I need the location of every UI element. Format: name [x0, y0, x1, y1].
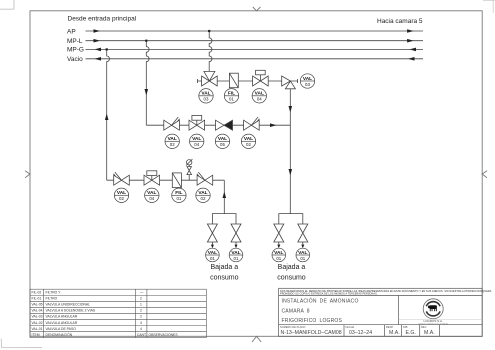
svg-text:Bajada a: Bajada a	[278, 264, 306, 271]
bubble VAL 02 row 2 b	[241, 134, 255, 148]
bubble VAL 03 angle row 1	[300, 74, 314, 88]
flow arrow down on MP-L drop	[145, 89, 149, 96]
svg-text:Hacia camara 5: Hacia camara 5	[377, 18, 423, 25]
valve VAL-01 bajada 2	[231, 224, 241, 242]
flow arrow bajada outlet 4	[301, 245, 304, 249]
flow arrow Vacio right	[408, 57, 415, 61]
svg-text:01: 01	[276, 256, 281, 261]
svg-text:04: 04	[194, 142, 199, 147]
valve VAL-04 solenoid row 3	[144, 175, 160, 185]
wire AP drop to row 1 with crossover hops	[209, 31, 212, 71]
svg-text:2: 2	[140, 309, 142, 313]
flow arrow down on right riser lower	[289, 169, 293, 176]
wire Vacio header line	[86, 58, 424, 60]
svg-text:AP: AP	[67, 28, 76, 35]
svg-text:01: 01	[210, 256, 215, 261]
svg-text:03–12–24: 03–12–24	[349, 330, 372, 336]
svg-text:LOGROS S.A.: LOGROS S.A.	[424, 319, 444, 323]
legend table	[30, 289, 206, 337]
svg-text:01: 01	[229, 97, 234, 102]
svg-text:ITEM: ITEM	[32, 333, 40, 337]
valve VAL-03 three-way row 1	[202, 71, 218, 86]
node label bajada left	[210, 264, 306, 281]
bubble VAL 02 row 3 b	[196, 188, 210, 202]
wire right bajada valve outlet stems	[279, 242, 303, 245]
svg-text:VAL-01: VAL-01	[32, 327, 43, 331]
svg-text:VALVULA ANGULAR: VALVULA ANGULAR	[46, 315, 78, 319]
wire MP-L drop to row 2 with hops	[146, 41, 149, 126]
wire MP-G header line	[86, 48, 424, 50]
junction node AP drop	[208, 30, 210, 32]
flow arrow up on left bajada feed	[223, 192, 227, 199]
valve VAL-02 row 3 second	[197, 172, 205, 180]
scan artifact bottom-left corner	[1, 339, 42, 348]
svg-text:NUMERO DE PLANO: NUMERO DE PLANO	[280, 325, 305, 329]
flow arrow MP-G left	[95, 48, 102, 52]
valve VAL-02 row 2 second	[251, 117, 259, 125]
svg-text:VALVULA DE PASO: VALVULA DE PASO	[46, 327, 77, 331]
svg-text:01: 01	[234, 256, 239, 261]
svg-text:FECHA: FECHA	[346, 325, 355, 329]
svg-text:Bajada a: Bajada a	[210, 264, 238, 271]
junction node MP-G drop	[106, 48, 108, 50]
wire left bajada valve outlet stems	[212, 242, 236, 245]
svg-text:MP-G: MP-G	[67, 47, 84, 54]
title block	[279, 288, 483, 336]
header labels	[67, 16, 423, 64]
bubble VAL 04 row 1	[252, 89, 266, 103]
svg-text:03: 03	[204, 97, 209, 102]
svg-text:VAL-02: VAL-02	[32, 321, 43, 325]
wire MP-G drop to row 3 with hop	[107, 49, 110, 180]
svg-text:CANT.: CANT.	[137, 333, 147, 337]
svg-text:05: 05	[220, 142, 225, 147]
svg-text:02: 02	[119, 196, 124, 201]
svg-text:01: 01	[176, 196, 181, 201]
border center mark bottom	[252, 336, 261, 342]
title block bottom row labels	[280, 325, 427, 329]
wire row 3 pipe	[107, 179, 225, 181]
valve VAL-01 bajada 3	[274, 224, 284, 242]
svg-text:VALVULA A SOLENOIDE 2 VIAS: VALVULA A SOLENOIDE 2 VIAS	[46, 309, 96, 313]
bubble FIL 01 row 1	[224, 89, 238, 103]
wire right bajada manifold	[279, 214, 303, 224]
valve VAL-05 check row 2	[216, 120, 225, 130]
svg-text:RESP.: RESP.	[386, 325, 394, 329]
svg-text:DENOMINACIÓN: DENOMINACIÓN	[46, 332, 73, 337]
bubble VAL 02 row 2 a	[165, 134, 179, 148]
svg-text:VAL-03: VAL-03	[32, 315, 43, 319]
svg-text:FILTRO: FILTRO	[46, 297, 58, 301]
bubble VAL 01 bajada 4	[296, 248, 310, 262]
scan artifact top-left corner	[0, 0, 14, 9]
svg-text:FIL-02: FIL-02	[32, 291, 42, 295]
valve VAL-03 angle row 1	[282, 76, 296, 89]
bubble VAL 01 bajada 3	[272, 248, 286, 262]
valve VAL-02 row 2 first	[172, 117, 180, 125]
valve VAL-04 solenoid row 1	[253, 76, 269, 86]
svg-text:03: 03	[305, 82, 310, 87]
bubble VAL 01 bajada 1	[206, 248, 220, 262]
svg-text:02: 02	[246, 142, 251, 147]
flow arrow up on MP-G drop	[105, 114, 109, 121]
svg-text:PROHIBIDO SU COPIA O ENTREGA D: PROHIBIDO SU COPIA O ENTREGA DE LOS MISM…	[280, 293, 378, 296]
title block main titles	[282, 298, 359, 324]
scan artifact top-right corner	[483, 0, 495, 13]
svg-text:N-13–MANIFOLD–CAM08: N-13–MANIFOLD–CAM08	[281, 330, 342, 336]
svg-text:Vacio: Vacio	[67, 56, 83, 63]
valve VAL-01 bajada 4	[298, 224, 308, 242]
wire left bajada feed drop	[223, 180, 225, 213]
flow arrow MP-G right	[410, 48, 417, 52]
instrument bubbles	[114, 74, 314, 262]
flow arrow right on row 2 pipe	[270, 123, 277, 127]
svg-text:VAL-04: VAL-04	[32, 309, 43, 313]
bubble VAL 04 row 3	[145, 188, 159, 202]
bubble VAL 04 row 2	[190, 134, 204, 148]
svg-text:OBSERVACIONES: OBSERVACIONES	[149, 333, 179, 337]
bubble VAL 03 row 1	[199, 89, 213, 103]
filter FIL-01 row 3	[172, 173, 181, 188]
svg-text:M.A.: M.A.	[424, 330, 435, 336]
svg-text:4: 4	[140, 327, 142, 331]
filter FIL-01 row 1	[229, 73, 238, 88]
svg-text:Desde entrada principal: Desde entrada principal	[68, 16, 137, 23]
svg-text:04: 04	[257, 97, 262, 102]
svg-text:consumo: consumo	[210, 274, 239, 281]
flow arrow down on right riser upper	[289, 106, 293, 113]
svg-text:2: 2	[140, 297, 142, 301]
svg-text:M.A.: M.A.	[389, 330, 400, 336]
wire AP header line	[86, 30, 424, 32]
svg-text:VALVULA ANGULAR: VALVULA ANGULAR	[46, 321, 78, 325]
flow arrow bajada outlet 3	[277, 245, 280, 249]
border center mark left	[25, 171, 30, 178]
svg-text:VAL-05: VAL-05	[32, 303, 43, 307]
filter FIL-02 vent with gauge row 3	[188, 165, 190, 180]
svg-text:REV.: REV.	[421, 325, 427, 329]
flow arrow MP-L right	[407, 39, 414, 43]
svg-text:DIB.: DIB.	[403, 325, 408, 329]
valve VAL-01 bajada 1	[207, 224, 217, 242]
wire row 2 pipe	[146, 124, 290, 126]
svg-text:4: 4	[140, 321, 142, 325]
cow silhouette	[428, 305, 437, 311]
svg-text:VALVULA UNIDIRECCIONAL: VALVULA UNIDIRECCIONAL	[46, 303, 91, 307]
bubble labels	[117, 76, 312, 261]
svg-text:02: 02	[201, 196, 206, 201]
valve VAL-02 row 3 first	[114, 172, 122, 180]
svg-text:E.G.: E.G.	[406, 330, 416, 336]
title block legal strip	[280, 290, 492, 296]
svg-text:FIL-01: FIL-01	[32, 297, 42, 301]
svg-text:1: 1	[140, 303, 142, 307]
svg-text:INSTALACIÓN DE AMONIACO: INSTALACIÓN DE AMONIACO	[282, 298, 359, 305]
flow arrow Vacio left	[95, 57, 102, 61]
wire left bajada manifold	[212, 214, 236, 224]
bubble VAL 01 bajada 2	[229, 248, 243, 262]
border center mark right	[482, 171, 487, 178]
svg-text:consumo: consumo	[277, 274, 306, 281]
svg-text:FILTRO Y: FILTRO Y	[46, 291, 62, 295]
svg-text:02: 02	[170, 142, 175, 147]
svg-text:04: 04	[149, 196, 154, 201]
bubble FIL 01 row 3	[172, 188, 186, 202]
flow arrow bajada outlet 1	[211, 245, 214, 249]
svg-text:FRIGORIFICO LOGROS: FRIGORIFICO LOGROS	[282, 318, 343, 324]
svg-text:01: 01	[300, 256, 305, 261]
svg-text:MP-L: MP-L	[67, 38, 83, 45]
border center mark top	[253, 7, 261, 11]
wire row 1 pipe	[197, 79, 297, 83]
company logo	[399, 299, 483, 326]
title block bottom row values	[281, 330, 435, 336]
svg-text:2: 2	[140, 315, 142, 319]
junction node MP-L drop	[145, 40, 147, 42]
flow arrow MP-L left	[94, 39, 101, 43]
bubble VAL 02 row 3 a	[114, 188, 128, 202]
bubble VAL 05 row 2	[215, 134, 229, 148]
flow arrow bajada outlet 2	[235, 245, 238, 249]
flow arrow AP left	[94, 29, 101, 33]
wire right riser to right bajada manifold	[289, 89, 291, 214]
valve VAL-04 solenoid row 2	[189, 120, 205, 130]
svg-text:CAMARA 8: CAMARA 8	[282, 308, 310, 314]
flow arrow AP right	[407, 29, 414, 33]
wire MP-L header line	[86, 40, 424, 42]
